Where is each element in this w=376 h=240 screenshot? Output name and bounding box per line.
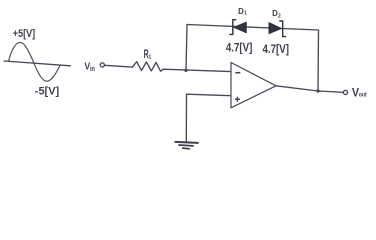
svg-text:4.7[V]: 4.7[V] xyxy=(226,40,253,54)
svg-text:in: in xyxy=(90,66,95,73)
svg-text:2: 2 xyxy=(278,13,281,19)
svg-text:-5[V]: -5[V] xyxy=(35,85,60,97)
svg-text:+5[V]: +5[V] xyxy=(13,28,36,40)
svg-text:1: 1 xyxy=(244,11,247,17)
svg-text:out: out xyxy=(359,92,367,99)
svg-text:1: 1 xyxy=(148,55,151,61)
svg-text:4.7[V]: 4.7[V] xyxy=(263,42,290,56)
